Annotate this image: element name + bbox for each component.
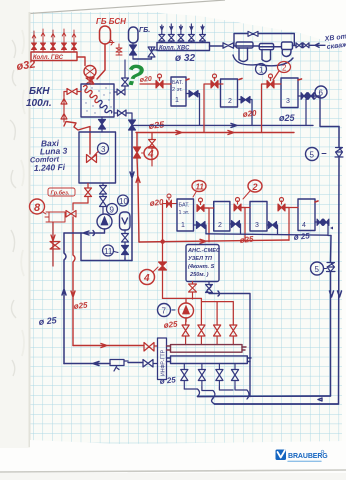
svg-text:ГБ БСН: ГБ БСН xyxy=(96,17,126,26)
svg-text:11: 11 xyxy=(104,247,113,256)
right vertical B xyxy=(215,127,342,405)
svg-text:3: 3 xyxy=(101,145,106,154)
wire ХВС collector to filter xyxy=(210,45,224,47)
manifold bar 2 (return) xyxy=(167,356,252,364)
valve rad3-2 feed xyxy=(234,204,241,211)
wire rad4 to vertical A xyxy=(328,222,331,235)
wire rad3 to right main xyxy=(316,96,340,127)
svg-text:8: 8 xyxy=(34,202,41,214)
red supply main 2nd floor xyxy=(136,131,294,135)
small arrow mark xyxy=(330,227,333,230)
valve below cartridge xyxy=(122,230,129,245)
check valves on left drop xyxy=(61,96,67,122)
svg-text:1: 1 xyxy=(259,66,264,75)
svg-text:BRAUBERG: BRAUBERG xyxy=(288,453,328,460)
svg-text:ø25: ø25 xyxy=(73,301,88,311)
red riser rad2 xyxy=(204,84,211,133)
pump symbol on floor return xyxy=(110,360,128,372)
svg-text:ø 32: ø 32 xyxy=(175,53,195,64)
svg-text:БАТ.: БАТ. xyxy=(172,80,183,86)
svg-text:2: 2 xyxy=(252,182,258,192)
svg-text:4: 4 xyxy=(147,149,154,160)
node label 2 (red circle) xyxy=(273,62,291,81)
drop rad3 to return xyxy=(305,100,307,126)
valve tank coil inlet xyxy=(114,89,125,95)
valve rad1-2 return xyxy=(197,222,206,229)
valve rad1 return xyxy=(189,91,198,98)
radiator 2 row2 xyxy=(214,202,230,232)
white top-right corner (page rotation) xyxy=(160,10,346,47)
tank БКН 100л xyxy=(81,84,114,117)
red riser rad4-2 xyxy=(285,208,289,241)
red riser R (main vertical) xyxy=(136,133,140,243)
valve on riser x132 xyxy=(129,120,136,130)
red supply main 1st floor xyxy=(139,239,289,243)
radiator 1 row1 xyxy=(171,77,186,106)
blue return main 1st floor xyxy=(206,234,328,235)
bypass loop over filters xyxy=(234,34,294,46)
red bleed dot rad1 xyxy=(186,79,189,80)
svg-text:ø 25: ø 25 xyxy=(293,231,310,242)
valve V-ХВС inlet xyxy=(223,43,234,48)
red bleed dot rad2 xyxy=(239,79,242,80)
air vent symbol red xyxy=(109,40,122,55)
svg-text:5: 5 xyxy=(310,151,315,160)
svg-text:3: 3 xyxy=(255,222,259,229)
svg-text:250м. ): 250м. ) xyxy=(189,272,209,278)
valve rad2-2 return xyxy=(232,221,240,228)
label Гр.без. xyxy=(48,188,75,197)
red drop to TP node xyxy=(161,204,186,304)
BRAUBERG logo xyxy=(276,450,329,462)
svg-text:Колл. ХВС: Колл. ХВС xyxy=(159,46,190,52)
filter F2 housing xyxy=(259,44,281,62)
red drop to Ø20 branch xyxy=(151,133,153,140)
wire boiler red down-left xyxy=(73,203,88,210)
valve pair inlet from well xyxy=(296,43,309,48)
wire ГВС box to pump xyxy=(77,57,85,66)
valve rad2-2 feed xyxy=(197,205,204,212)
valve rad1 feed xyxy=(156,81,163,89)
svg-text:Колл. ГВС: Колл. ГВС xyxy=(33,55,64,61)
svg-text:ИНФР-ГТР: ИНФР-ГТР xyxy=(161,349,167,376)
svg-text:4: 4 xyxy=(143,273,150,284)
expansion tank ГБ БСН (red capsule) xyxy=(97,26,111,79)
node 2 circle red second xyxy=(248,180,262,192)
valve below TP box blue xyxy=(206,282,213,293)
valve above tank right (blue) xyxy=(122,60,129,89)
svg-text:2 эт.: 2 эт. xyxy=(172,87,183,93)
collector "Колл. ХВС" box xyxy=(157,43,210,51)
wire TP blue to right drop xyxy=(209,291,250,397)
wire pump to tank xyxy=(89,78,91,85)
valve to dirt trap xyxy=(66,211,76,218)
svg-text:ø20: ø20 xyxy=(242,109,257,119)
node 8 (red circle) xyxy=(30,199,47,214)
pump P (red circle) xyxy=(84,66,96,78)
coil in tank (red part) xyxy=(84,85,99,102)
svg-text:2: 2 xyxy=(228,98,232,105)
valve V4b xyxy=(159,262,167,270)
valve on ХВС drop xyxy=(148,47,158,57)
valve rad2 feed xyxy=(211,81,218,89)
blue TP valves below manifold xyxy=(181,364,239,390)
svg-text:БАТ.: БАТ. xyxy=(179,203,190,209)
wire red drop to floor main xyxy=(71,217,75,346)
radiator 1 row2 xyxy=(177,199,194,231)
wire ГБ tank line to ХВС collector xyxy=(133,57,152,59)
node 11 circle blue xyxy=(103,245,114,256)
valve left of tank xyxy=(64,89,81,97)
wire junction to H2 xyxy=(80,233,82,261)
node 9 circle xyxy=(107,204,118,215)
node 6 circle xyxy=(315,86,327,98)
valve on Ø20 branch xyxy=(149,140,156,167)
svg-text:1: 1 xyxy=(175,97,179,104)
valve boiler top (to tank) xyxy=(99,117,106,132)
svg-text:ø25: ø25 xyxy=(239,235,254,245)
wire to valve xyxy=(128,362,143,364)
svg-text:1: 1 xyxy=(181,222,185,229)
torn left edge xyxy=(10,40,16,376)
swoosh bracket under filters xyxy=(233,55,293,66)
valve on red floor main xyxy=(144,343,158,352)
softener unit U3 xyxy=(282,42,297,57)
svg-text:10: 10 xyxy=(119,197,128,206)
valve below TP box red xyxy=(189,282,197,300)
valve V5a on B xyxy=(335,148,343,158)
pump TP red circle xyxy=(179,303,194,322)
valve boiler bottom red xyxy=(85,184,92,204)
underlying page edge line top xyxy=(8,0,225,15)
svg-text:ø 25: ø 25 xyxy=(38,315,58,327)
manifold label box ИНФР-ГТР xyxy=(158,338,167,380)
bypass valve xyxy=(248,31,258,36)
red bleed dot rad4-2 xyxy=(315,201,318,202)
red riser rad3-2 xyxy=(241,208,245,242)
expansion tank ГБ (blue capsule) xyxy=(129,27,139,43)
valves with arrows on ХВС collector xyxy=(159,24,206,43)
valve rad4-2 return pair xyxy=(317,219,329,226)
valve V5b on A xyxy=(327,263,336,272)
svg-text:9: 9 xyxy=(110,206,115,215)
node 4 circle red xyxy=(144,147,158,160)
svg-text:2: 2 xyxy=(282,64,287,73)
valve rad4-2 feed xyxy=(278,204,285,211)
elbow fitting to boiler xyxy=(64,122,90,155)
svg-text:ø25: ø25 xyxy=(279,113,296,123)
valve V4a on riser xyxy=(134,147,141,158)
red TP supply wires xyxy=(163,298,234,325)
red riser rad3 xyxy=(262,84,268,133)
node 4 circle red second xyxy=(140,267,159,285)
valve on floor return xyxy=(143,360,158,368)
valve tank top red (from pump) xyxy=(90,77,94,84)
blue return main 2nd floor xyxy=(132,123,313,127)
node 11 circle red xyxy=(192,181,206,192)
wire riser x132 down xyxy=(130,130,134,261)
valve below pump xyxy=(86,78,94,84)
node 5 circle second xyxy=(311,262,324,275)
coil in tank (blue part) xyxy=(99,100,112,113)
dirt trap (striped box) xyxy=(45,212,65,222)
svg-text:ø25: ø25 xyxy=(163,320,178,330)
svg-text:ø20: ø20 xyxy=(139,76,152,84)
node 3 circle in boiler xyxy=(98,143,109,154)
wire red floor main bottom xyxy=(73,344,144,348)
blue return vertical left xyxy=(62,233,66,364)
box УЗЕЛ ТП xyxy=(186,245,219,282)
node 5 circle xyxy=(306,148,319,161)
valve on trap drop xyxy=(50,242,60,250)
radiator 3 row1 xyxy=(281,78,298,108)
svg-text:ø 25: ø 25 xyxy=(159,375,176,386)
svg-text:1.240 Fi: 1.240 Fi xyxy=(34,162,66,173)
bottom white below page xyxy=(0,448,346,480)
long return wire to A xyxy=(198,396,331,401)
valve 2 below cartridge xyxy=(122,246,129,259)
valve below ГБ tank xyxy=(130,43,137,59)
valve in boiler (red 3-way) xyxy=(87,152,99,163)
node 7 circle xyxy=(158,304,171,317)
valves chain below boiler xyxy=(100,184,107,215)
svg-text:5: 5 xyxy=(315,265,320,274)
red feed wire radiator 1 xyxy=(140,83,156,85)
node 10 circle xyxy=(118,195,129,206)
svg-text:БКН: БКН xyxy=(29,86,50,97)
svg-text:АНС.-СМЕС: АНС.-СМЕС xyxy=(187,248,221,254)
page left edge shadow xyxy=(29,12,31,447)
collector "Колл. ГВС" box xyxy=(31,52,77,61)
radiator 3 row2 xyxy=(250,202,267,232)
svg-text:(4конт. S: (4конт. S xyxy=(188,264,215,270)
valve rad2 return xyxy=(241,97,250,104)
svg-text:1 эт.: 1 эт. xyxy=(179,210,190,216)
right vertical A xyxy=(198,236,334,397)
valve rad3 return pair xyxy=(301,93,314,100)
radiator 2 row1 xyxy=(221,79,238,107)
TP return collectors xyxy=(184,387,249,399)
boiler Baxi box xyxy=(79,132,116,183)
node label 1 (circle) xyxy=(256,64,267,75)
svg-text:Гр.без.: Гр.без. xyxy=(51,190,70,197)
red bleed dot rad3 xyxy=(298,79,302,80)
svg-text:УЗЕЛ ТП: УЗЕЛ ТП xyxy=(188,256,213,262)
valve rad3 feed xyxy=(267,81,274,89)
svg-text:ГБ.: ГБ. xyxy=(139,27,150,34)
manifold bar 1 (supply) xyxy=(167,345,247,353)
tank speckles xyxy=(85,87,111,113)
pump P2 blue circle xyxy=(97,214,112,233)
red riser rad2-2 xyxy=(204,208,209,242)
wire from well with arrow xyxy=(309,43,325,47)
wire trap down with arrow xyxy=(51,222,55,266)
radiator battery row2 feed valve (Ø20) xyxy=(163,194,178,208)
red TP valves to manifold xyxy=(182,325,237,345)
svg-text:3: 3 xyxy=(286,98,290,105)
svg-text:7: 7 xyxy=(162,307,167,316)
left margin xyxy=(0,0,30,480)
svg-text:2: 2 xyxy=(218,222,222,229)
radiator 4 row2 xyxy=(298,199,315,231)
valves with arrows on ГВС collector xyxy=(31,29,76,52)
valve tank bottom-right to riser xyxy=(114,110,132,120)
valve rad3-2 return xyxy=(269,222,277,229)
svg-text:11: 11 xyxy=(196,183,205,192)
wire blue floor return bottom xyxy=(64,362,110,366)
svg-text:100л.: 100л. xyxy=(26,98,52,109)
wire horizontal H1 y=233 xyxy=(64,231,105,236)
filter cartridge xyxy=(120,212,131,230)
bottom shadow line xyxy=(0,470,346,472)
wire H2 y=260.5 xyxy=(81,258,132,261)
filter F1 housing xyxy=(234,42,259,62)
white top strip xyxy=(0,0,346,12)
svg-text:4: 4 xyxy=(302,222,306,229)
